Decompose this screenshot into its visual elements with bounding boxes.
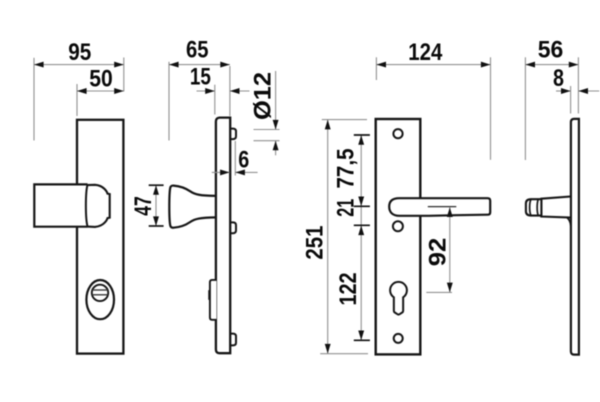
svg-text:6: 6 — [238, 147, 249, 174]
svg-text:251: 251 — [301, 226, 328, 260]
svg-text:77,5: 77,5 — [333, 149, 360, 189]
svg-text:47: 47 — [130, 196, 157, 216]
svg-text:56: 56 — [538, 36, 564, 63]
svg-text:15: 15 — [190, 64, 211, 91]
svg-text:95: 95 — [68, 39, 91, 66]
svg-text:8: 8 — [553, 65, 564, 92]
svg-text:50: 50 — [89, 65, 113, 92]
svg-text:65: 65 — [186, 36, 209, 63]
svg-text:124: 124 — [408, 39, 443, 66]
svg-text:Ø12: Ø12 — [250, 72, 277, 120]
svg-text:122: 122 — [335, 273, 362, 306]
svg-text:92: 92 — [424, 238, 451, 267]
svg-text:21: 21 — [332, 199, 359, 217]
